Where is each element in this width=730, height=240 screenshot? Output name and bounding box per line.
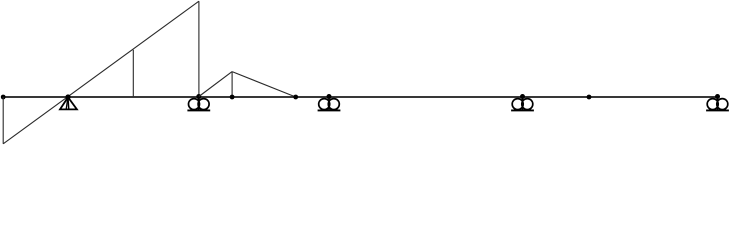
wire: intermediate load ordinate at x=133	[132, 50, 134, 97]
roller support 2	[318, 94, 341, 110]
wire: small triangular load falling edge	[232, 72, 296, 97]
pin support (hinged fixed support)	[60, 94, 77, 109]
node at x=296	[293, 95, 298, 100]
beam (wire) main horizontal member	[3, 96, 718, 98]
roller support 1	[187, 94, 210, 110]
wire: right load ordinate at x=199	[198, 1, 200, 96]
node (hinge) at x=589	[587, 95, 592, 100]
roller support 3	[511, 94, 534, 110]
wire: small load ordinate at x=232	[231, 72, 233, 97]
node at x=232	[230, 95, 235, 100]
node A (left beam end)	[1, 95, 6, 100]
wire: left load ordinate vertical	[2, 97, 4, 144]
wire: sloped distributed-load line	[3, 1, 199, 144]
wire: small triangular load rising edge	[199, 72, 232, 97]
roller support 4 (right end)	[706, 94, 729, 110]
